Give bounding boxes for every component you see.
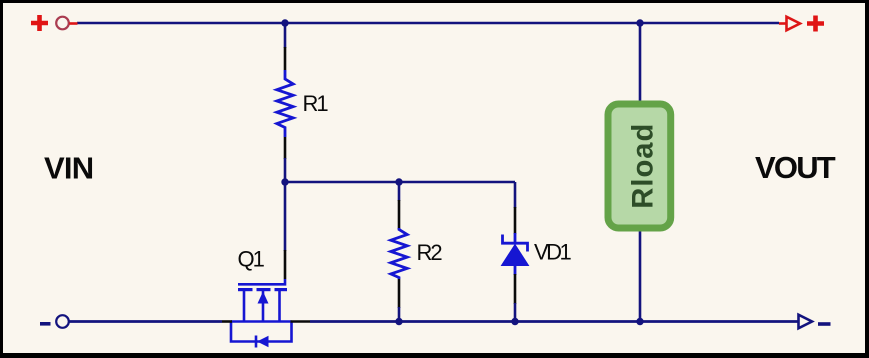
- svg-text:Q1: Q1: [238, 247, 265, 272]
- transistor Q1 (MOSFET): [231, 279, 292, 348]
- svg-text:Rload: Rload: [628, 123, 660, 209]
- R2 pin 2: [398, 279, 401, 308]
- Q1 source lead: [243, 290, 246, 322]
- VOUT + terminal: [779, 16, 824, 32]
- wire node A to R2: [398, 182, 401, 201]
- Q1 drain lead: [278, 290, 281, 322]
- VD1 cathode pin: [514, 207, 517, 234]
- wire top rail to R1: [284, 23, 287, 48]
- R2 pin 1: [398, 200, 401, 229]
- Q1 drain pin stub: [291, 320, 311, 323]
- svg-text:VIN: VIN: [44, 151, 93, 186]
- resistor R2: [391, 228, 407, 279]
- Q1 channel bar body: [257, 288, 271, 291]
- junction dot top rail / Rload: [636, 19, 643, 26]
- junction dot node A / R2: [395, 178, 402, 185]
- junction dot bottom rail / VD1: [511, 318, 518, 325]
- Q1 body diode: [255, 336, 258, 348]
- svg-text:VD1: VD1: [534, 240, 572, 265]
- svg-text:R2: R2: [417, 240, 443, 265]
- Q1 source pin stub: [222, 320, 232, 323]
- VIN + terminal: [31, 15, 78, 31]
- wire R1 to node A: [284, 158, 287, 182]
- Q1 gate pin: [284, 250, 287, 279]
- wire top rail to Rload: [639, 23, 642, 103]
- zener diode VD1: [502, 233, 529, 275]
- svg-text:VOUT: VOUT: [755, 150, 836, 185]
- bottom rail wire: [69, 320, 798, 323]
- wire R2 to bottom rail: [398, 307, 401, 322]
- junction dot bottom rail / R2: [395, 318, 402, 325]
- wire Rload to bottom rail: [639, 230, 642, 322]
- wire VD1 to bottom rail: [514, 303, 517, 322]
- Q1 channel bar drain: [275, 288, 288, 291]
- junction dot top rail / R1: [281, 19, 288, 26]
- VIN - terminal: [40, 315, 69, 328]
- resistor R1: [277, 70, 293, 137]
- resistor Rload box: [608, 104, 671, 228]
- junction dot bottom rail / Rload: [636, 318, 643, 325]
- Q1 gate bar: [238, 279, 285, 284]
- svg-text:R1: R1: [303, 91, 329, 116]
- VD1 anode pin: [514, 274, 517, 304]
- Q1 channel bar source: [238, 288, 253, 291]
- top rail wire: [77, 22, 779, 25]
- wire node A corner to VD1: [514, 182, 517, 208]
- R1 pin 2: [284, 137, 287, 159]
- Q1 body-source loop: [231, 321, 292, 342]
- R1 pin 1: [284, 47, 287, 70]
- Q1 body lead with arrow: [262, 291, 265, 322]
- Q1 channel rail segment: [231, 320, 292, 323]
- wire node A to Q1 gate: [284, 182, 287, 251]
- junction dot node A / R1: [281, 178, 288, 185]
- VOUT - terminal: [799, 315, 831, 329]
- node A horizontal wire: [285, 181, 515, 184]
